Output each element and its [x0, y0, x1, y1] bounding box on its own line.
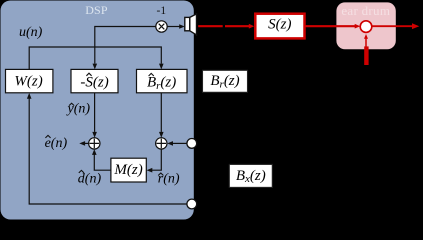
svg-text:-S(z): -S(z) — [80, 75, 108, 91]
wire branch down into -S-hat — [94, 47, 96, 64]
red wire S(z) to ear drum node — [305, 25, 356, 27]
node r(n) input on DSP edge — [187, 139, 197, 149]
red thick stub — [364, 46, 368, 65]
svg-text:ear drum: ear drum — [341, 3, 390, 18]
adder A1 — [89, 138, 100, 149]
wire node to adder A2 — [172, 142, 187, 144]
svg-text:Br(z): Br(z) — [147, 75, 176, 92]
svg-text:y(n): y(n) — [66, 102, 91, 117]
svg-text:d(n): d(n) — [78, 172, 102, 187]
ear drum box — [336, 2, 395, 49]
svg-text:-1: -1 — [157, 5, 167, 17]
red thin arrow up into node — [365, 38, 367, 48]
block -S-hat(z) — [71, 69, 118, 92]
svg-text:M(z): M(z) — [113, 162, 142, 178]
svg-text:S(z): S(z) — [268, 16, 291, 32]
hat over d — [79, 170, 84, 173]
block S(z) red — [255, 14, 304, 39]
red dashed wire speaker to S(z) — [198, 25, 249, 27]
svg-text:Bx(z): Bx(z) — [236, 168, 266, 185]
wire B_r-hat output to adder A2 — [160, 93, 162, 132]
hat over B — [149, 73, 154, 76]
ear drum node — [360, 21, 372, 33]
speaker — [185, 17, 190, 30]
hat over y — [69, 103, 74, 105]
wire multiplier to speaker — [167, 26, 179, 28]
svg-text:W(z): W(z) — [14, 73, 42, 89]
svg-text:DSP: DSP — [85, 3, 108, 17]
svg-text:Br(z): Br(z) — [210, 73, 239, 90]
block W(z) — [6, 69, 53, 92]
hat over e — [45, 135, 50, 138]
wire -S-hat output to adder A1 — [94, 93, 96, 132]
block B_x(z) — [229, 164, 272, 187]
block B_r-hat(z) — [137, 69, 188, 92]
block M(z) — [111, 158, 146, 182]
red wire ear drum node to right edge — [372, 25, 413, 27]
node bottom input on DSP edge — [187, 199, 197, 209]
adder A2 — [156, 138, 167, 149]
DSP enclosure — [1, 1, 194, 220]
wire adder A1 to e-hat(n) — [85, 142, 89, 144]
svg-text:e(n): e(n) — [45, 136, 68, 151]
block B_r(z) — [203, 70, 248, 92]
svg-text:u(n): u(n) — [19, 25, 43, 40]
hat over S — [86, 73, 91, 76]
wire adder A2 down to M(z) — [152, 149, 162, 170]
wire M(z) to adder A1 — [94, 154, 111, 170]
wire bottom node to W(z) input — [29, 98, 187, 204]
multiplier (-1) — [156, 21, 167, 32]
hat over r — [158, 173, 163, 176]
wire u(n): from W(z) output to B_r-hat input — [29, 47, 161, 69]
wire branch up to multiplier — [95, 27, 156, 48]
